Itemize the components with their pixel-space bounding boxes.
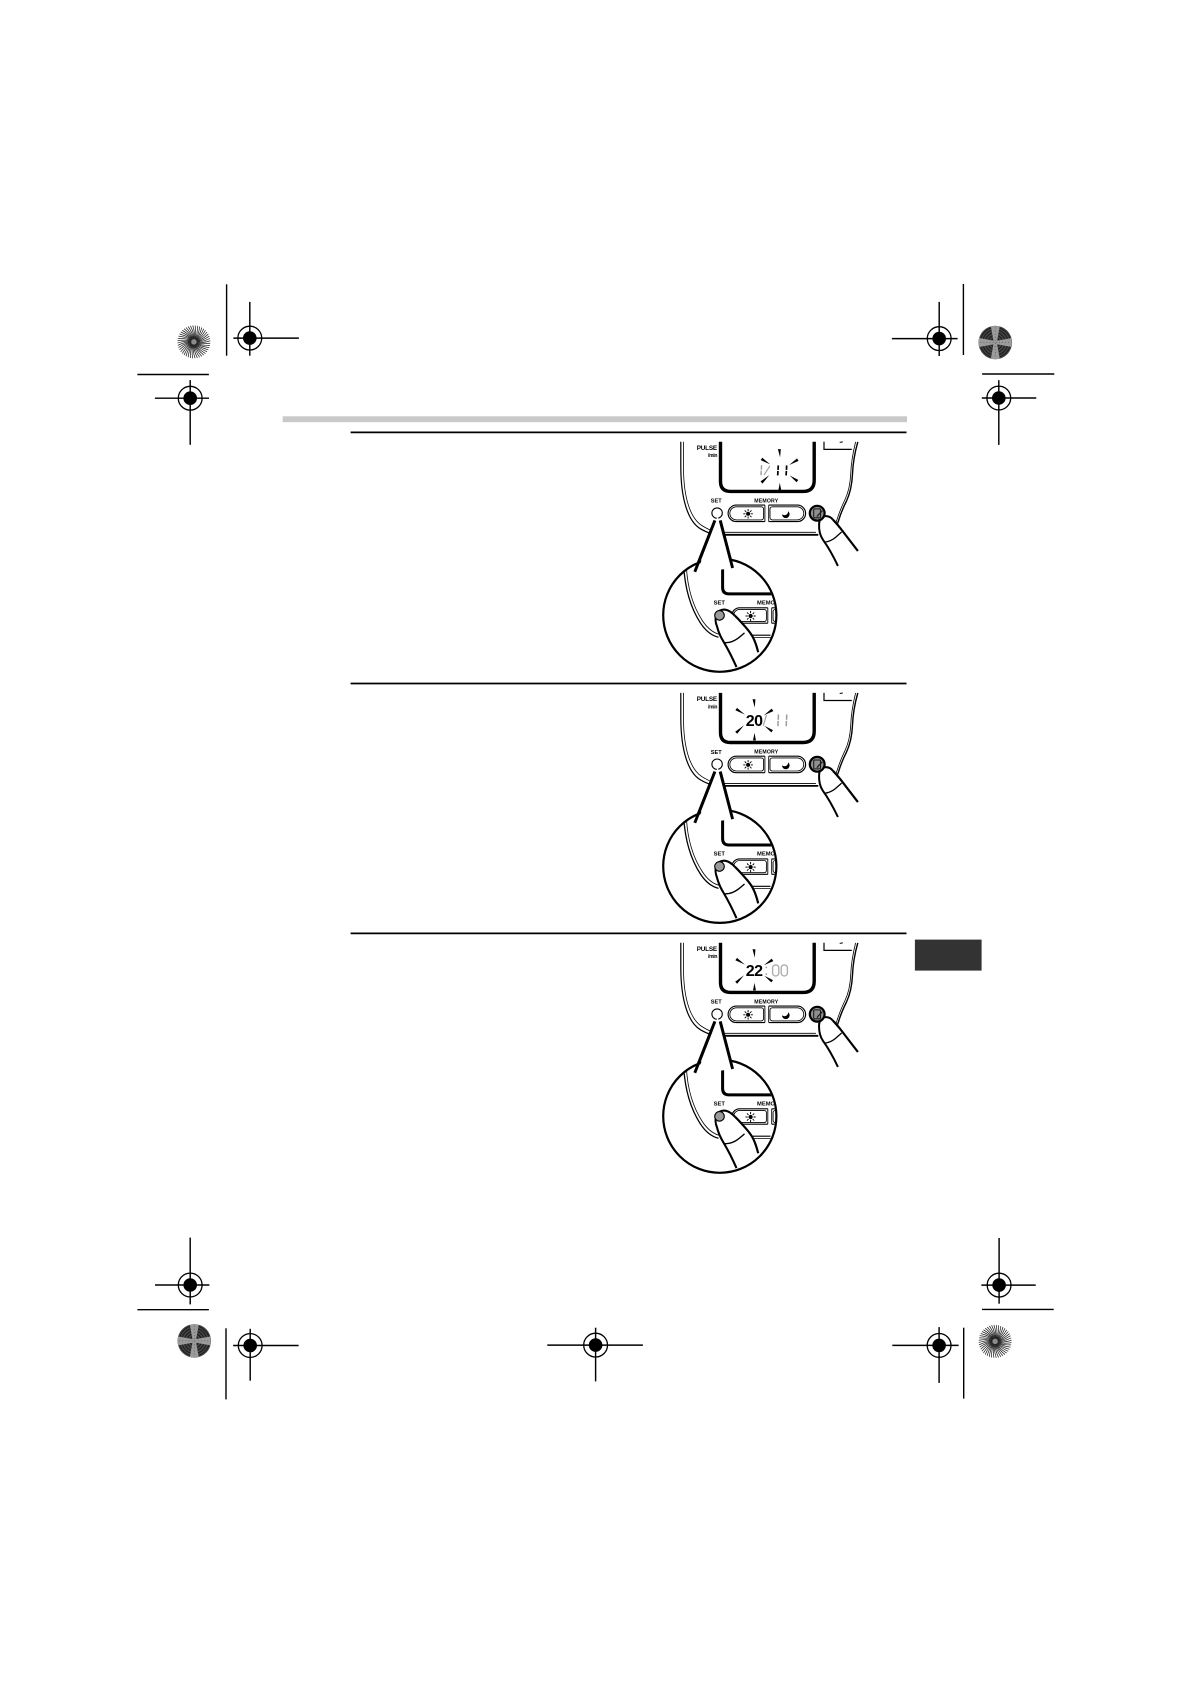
svg-text:SET: SET [714,600,726,606]
magnified memory capsule [732,608,787,623]
section divider line 2 [351,683,907,685]
sun icon (day button) [743,509,753,519]
registration mark bottom-left 1 [155,1238,209,1305]
dark pinwheel mark bottom-left [164,1311,224,1371]
device bottom edge (outer) [718,534,818,536]
capsule divider [765,504,769,523]
page edge tab [915,940,982,971]
magnifier pointer legs [695,521,733,572]
magnified SET button (pressed) [715,611,725,621]
trim line horizontal bottom-left [137,1309,209,1311]
trim line vertical top-right [962,284,964,355]
device figure section 3 [663,943,858,1173]
trim line horizontal top-right [982,373,1054,375]
trim line vertical bottom-right [963,1328,965,1399]
device body left edge (outer) [681,442,722,535]
registration mark bottom-left 2 [233,1329,299,1381]
cuff holder slot [824,442,852,450]
light pinwheel mark top-left [177,325,210,358]
svg-text:/min: /min [708,453,717,459]
O/I start button (dark) [810,506,825,521]
day button inner outline [730,507,764,520]
device body right edge (outer) [824,442,858,535]
device figure section 1 [663,442,858,672]
magnified capsule divider [768,606,776,624]
device body left edge (inner) [684,442,722,533]
moon icon (night button) [781,508,790,518]
memory button capsule (outer) [728,505,806,521]
pressing finger (at start button) [819,516,858,566]
magnified sun icon [746,611,756,621]
pointer legs over wedge [695,521,715,572]
magnified pressing finger [716,610,759,668]
registration mark bottom-right 1 [981,1238,1035,1304]
registration mark top-right 1 [892,302,958,356]
device figure section 2 [663,693,858,923]
pointer wedge opening into circle [697,516,733,573]
registration mark top-left 1 [233,302,299,356]
svg-text:MEMORY: MEMORY [754,498,778,504]
svg-text:PULSE: PULSE [697,445,718,452]
dark pinwheel mark top-right [965,313,1025,373]
svg-text:20: 20 [746,713,763,730]
trim line vertical top-left [226,284,228,355]
registration mark top-right 2 [982,380,1037,445]
registration mark top-left 2 [155,380,209,445]
registration mark bottom-right 2 [892,1327,958,1383]
night button inner outline [770,507,804,520]
device bottom edge (inner) [718,531,816,533]
section divider line 1 [351,431,907,433]
svg-text:SET: SET [711,499,722,505]
registration mark bottom-center [547,1328,643,1382]
light pinwheel mark bottom-right [979,1325,1012,1358]
section divider line 3 [351,932,907,934]
display 2: blinking 20/11 [735,699,787,740]
trim line vertical bottom-left [225,1328,227,1399]
magnifier circle [663,559,776,672]
trim line horizontal bottom-right [982,1308,1054,1310]
cuff holder tick [840,441,843,444]
magnified device bottom edge [742,634,771,636]
svg-text:MEMO: MEMO [757,600,776,606]
display 1: blinking 1/11 [761,449,799,490]
trim line horizontal top-left [137,374,209,376]
device body right edge (inner) [824,442,856,532]
display 3: blinking 22:00 [735,949,787,990]
gray header bar [283,416,907,422]
magnified LCD corner [723,557,774,594]
magnified body corner curve [684,566,719,637]
svg-text:22: 22 [746,963,763,980]
SET button [712,508,722,518]
LCD display frame [721,442,815,492]
magnifier [663,516,787,672]
